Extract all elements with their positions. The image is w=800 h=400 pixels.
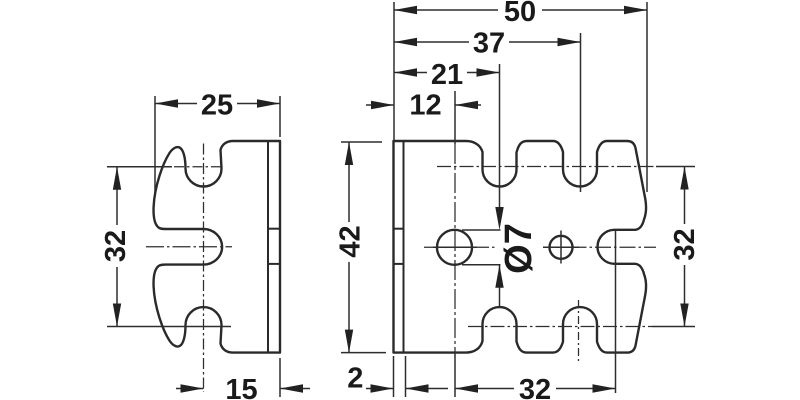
dim 32B ext left	[454, 352, 456, 397]
dim 2 arrow right	[406, 384, 429, 392]
dim 25 arrow right	[257, 99, 280, 107]
dim 7 arrow top	[495, 207, 503, 230]
dim 32R line lower	[684, 265, 686, 327]
svg-text:32: 32	[669, 228, 701, 260]
dim 32R ext top	[656, 166, 695, 168]
side view vertical centerline	[203, 144, 205, 393]
dim 25 ext left	[154, 96, 156, 194]
dim 12 arrow left	[371, 101, 394, 109]
plate front view outline	[394, 141, 647, 353]
dim 2 ext left	[393, 356, 395, 397]
dim 15 ext right	[279, 358, 281, 397]
dim 32R arrow bottom	[680, 304, 688, 327]
svg-text:25: 25	[201, 90, 233, 122]
front lip tick lower	[394, 263, 404, 265]
dim 50 ext right	[646, 2, 648, 192]
dim 32B arrow right	[593, 384, 616, 392]
svg-text:50: 50	[504, 0, 536, 28]
dim 32L line upper	[116, 167, 118, 225]
bottom notch2 centerline	[578, 300, 580, 361]
dim 7 leader lower	[499, 265, 501, 307]
front notch top axis	[437, 166, 656, 168]
dim 12 arrow right	[455, 101, 478, 109]
dim 15 line right	[280, 388, 310, 390]
dim 2 arrow left	[371, 384, 394, 392]
svg-text:32: 32	[519, 374, 551, 400]
dim 2 line right	[406, 388, 449, 390]
dim 2 line left	[366, 388, 394, 390]
dim 2 ext right	[405, 356, 407, 397]
dim 25 arrow left	[155, 99, 178, 107]
svg-text:42: 42	[335, 225, 367, 257]
dim 32L arrow bottom	[113, 304, 121, 327]
hole large vertical centerline	[454, 144, 456, 352]
hole large Ø7	[437, 230, 472, 265]
dim 25 line right	[237, 103, 280, 105]
dim 42 ext bottom	[341, 352, 386, 354]
dim 32L arrow top	[113, 167, 121, 190]
dim 42 arrow top	[345, 142, 353, 165]
side view horizontal centerline	[146, 246, 232, 248]
dim 15 arrow right	[280, 384, 303, 392]
dim 50 line left	[394, 9, 498, 11]
hole small vertical crosshair	[560, 231, 562, 264]
dim 12 ext right upper	[454, 91, 456, 144]
svg-text:37: 37	[473, 27, 505, 59]
dim 37 ext right	[580, 33, 582, 192]
side view notch axis dash	[174, 166, 221, 168]
dim 21 line right	[467, 72, 500, 74]
dim 50 line right	[542, 9, 647, 11]
dim 50 arrow right	[624, 6, 647, 14]
dim 42 arrow bottom	[345, 330, 353, 353]
dim 37 line right	[509, 41, 581, 43]
dim 37 arrow right	[558, 38, 581, 46]
plate side view outline	[154, 141, 280, 353]
front lip tick upper	[394, 228, 404, 230]
svg-text:21: 21	[431, 59, 463, 91]
svg-text:Ø7: Ø7	[498, 223, 540, 274]
svg-text:32: 32	[100, 230, 132, 262]
side view inner edge	[267, 142, 269, 352]
dim 32L ext bottom	[107, 326, 231, 328]
dim 32L ext top	[107, 166, 172, 168]
dim 32R ext bottom	[652, 326, 695, 328]
dim 25 ext right	[279, 96, 281, 137]
front view lip line	[403, 142, 405, 352]
dim 12 line left	[366, 104, 394, 106]
dim 32B ext right	[615, 230, 617, 393]
dim 37 line left	[394, 41, 469, 43]
dim 42 line lower	[348, 262, 350, 353]
dim 50 arrow left	[394, 6, 417, 14]
side view bend tick upper	[268, 228, 280, 230]
front view horizontal centerline right	[546, 246, 656, 248]
svg-text:12: 12	[409, 90, 441, 122]
dim 32B line left	[455, 388, 514, 390]
svg-text:15: 15	[225, 374, 257, 400]
dim 37 arrow left	[394, 38, 417, 46]
hole small horizontal crosshair	[543, 246, 579, 248]
dim 32R line upper	[684, 167, 686, 225]
dim 7 arrow bottom	[495, 265, 503, 288]
dim 32B arrow left	[455, 384, 478, 392]
dim 32B line right	[556, 388, 616, 390]
dim 42 ext top	[341, 141, 382, 143]
svg-text:2: 2	[347, 362, 363, 394]
front notch bottom axis	[468, 326, 652, 328]
side view bend tick lower	[268, 263, 280, 265]
dim 21 line left	[394, 72, 427, 74]
dim 7 ext top	[462, 229, 501, 231]
hole small	[550, 236, 573, 259]
dim 21 ext right / hole leader upper	[499, 64, 501, 207]
front view horizontal centerline left	[424, 246, 497, 248]
dim 15 line left	[176, 388, 204, 390]
dim 21 arrow right	[477, 68, 500, 76]
dim 12 line right	[455, 104, 481, 106]
dim 21 arrow left	[394, 68, 417, 76]
dim 32R arrow top	[680, 167, 688, 190]
dim 7 ext bottom	[462, 264, 501, 266]
hole large horizontal crosshair	[433, 246, 477, 248]
dim 32L line lower	[116, 267, 118, 327]
dim 42 line upper	[348, 142, 350, 222]
dim 15 arrow left	[181, 384, 204, 392]
top dims ext left	[393, 2, 395, 141]
dim 25 line left	[155, 103, 197, 105]
